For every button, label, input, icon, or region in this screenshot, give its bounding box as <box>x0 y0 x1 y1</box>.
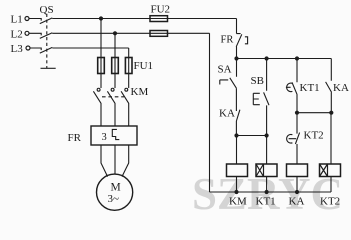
svg-text:FR: FR <box>221 35 234 46</box>
switch QS pole 3 <box>30 47 52 53</box>
svg-text:FR: FR <box>68 132 82 144</box>
node junction bus KT1 <box>265 190 269 194</box>
FR heater element symbol <box>112 129 119 139</box>
svg-text:FU2: FU2 <box>151 4 171 16</box>
svg-text:KA: KA <box>289 196 305 208</box>
switch SA <box>220 59 237 112</box>
wire L1 to FU2 and corner <box>52 18 236 20</box>
wire FR to motor 3 <box>122 145 129 177</box>
thermal relay FR box <box>91 126 137 145</box>
node L1 terminal <box>25 17 29 21</box>
QS linkage dashed <box>46 14 48 69</box>
relay contact KA (rung D) <box>326 59 332 113</box>
left control rail (from L2) <box>209 33 211 192</box>
node L3 terminal <box>26 46 30 50</box>
timed contact KT2 <box>295 113 299 164</box>
node junction C-D right <box>329 111 333 115</box>
relay contact KA (rung A) <box>236 110 240 136</box>
fuse FU1 a <box>98 58 105 74</box>
wire drop phase 3 <box>128 48 130 88</box>
contactor KM main contact 1 <box>93 88 101 126</box>
QS handle bar <box>41 67 56 69</box>
node L2 terminal <box>25 31 29 35</box>
fuse FU2 a <box>150 16 168 22</box>
wire FR to motor 1 <box>101 145 108 177</box>
node junction bus KM <box>234 190 238 194</box>
svg-text:KT2: KT2 <box>304 130 324 142</box>
svg-text:SB: SB <box>251 75 264 87</box>
FR NC contact (control) <box>236 19 242 59</box>
node junction C-D left <box>295 111 299 115</box>
svg-text:KT2: KT2 <box>320 196 340 208</box>
svg-text:3~: 3~ <box>108 193 120 205</box>
svg-text:3: 3 <box>102 132 107 143</box>
svg-text:KM: KM <box>229 196 247 208</box>
coil KT1 <box>266 136 268 193</box>
wire FR to motor 2 <box>114 145 116 174</box>
wire top rail <box>237 58 332 60</box>
svg-text:KT1: KT1 <box>300 82 320 94</box>
switch QS pole 1 <box>29 18 52 24</box>
svg-text:M: M <box>111 182 121 194</box>
wire join C-D <box>297 112 331 114</box>
timed contact KT1 <box>292 59 297 113</box>
fuse FU2 b <box>150 31 168 37</box>
wire drop phase 1 <box>100 19 102 89</box>
wire L2 to FU2 and corner <box>52 32 209 34</box>
pushbutton SB <box>253 59 269 136</box>
svg-text:KM: KM <box>131 86 149 98</box>
coil KM <box>236 136 238 193</box>
KM linkage dashed <box>102 96 124 98</box>
wire drop phase 2 <box>114 33 116 88</box>
wire join A-B <box>237 135 267 137</box>
fuse FU1 c <box>125 58 132 74</box>
node junction L1 drop <box>99 16 103 20</box>
node junction rail KT1 <box>295 56 299 60</box>
node junction A-B left <box>234 133 238 137</box>
svg-text:SA: SA <box>218 64 232 76</box>
motor M <box>97 174 133 210</box>
coil KA <box>287 164 308 177</box>
svg-text:KA: KA <box>219 108 235 120</box>
node junction top rail left <box>234 56 238 60</box>
wire L3 <box>52 47 128 49</box>
wire bottom bus <box>210 191 332 193</box>
contactor KM main contact 3 <box>121 88 129 126</box>
FR thermal marker <box>245 37 248 44</box>
node junction A-B right <box>265 133 269 137</box>
coil KT2 <box>330 113 332 192</box>
svg-text:L1: L1 <box>11 14 23 26</box>
contactor KM main contact 2 <box>107 88 115 126</box>
node junction bus KA <box>295 190 299 194</box>
node junction rail SB <box>265 56 269 60</box>
svg-text:KT1: KT1 <box>256 196 276 208</box>
svg-text:FU1: FU1 <box>134 60 154 72</box>
fuse FU1 b <box>112 58 119 74</box>
svg-text:QS: QS <box>40 4 54 16</box>
switch QS pole 2 <box>29 33 52 39</box>
node junction L2 drop <box>113 31 117 35</box>
svg-text:L3: L3 <box>11 43 24 55</box>
svg-text:KA: KA <box>333 82 349 94</box>
svg-text:L2: L2 <box>11 28 23 40</box>
